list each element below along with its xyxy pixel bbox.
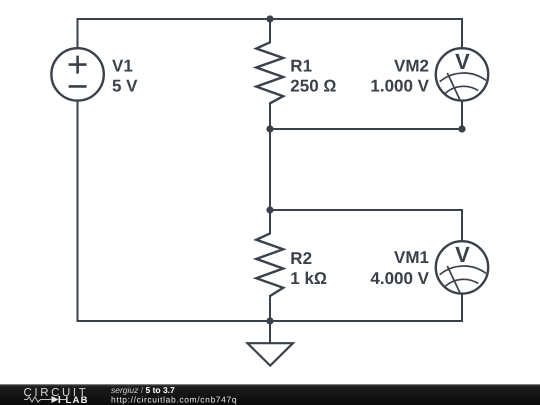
wire R1 bottom to R2 top (through nodes at y=129 and y=210) [269,103,271,233]
svg-text:1 kΩ: 1 kΩ [290,269,327,288]
label R2 value [290,249,327,288]
voltmeter VM2 [436,48,488,100]
svg-text:1.000 V: 1.000 V [370,76,429,95]
svg-text:V: V [455,49,470,74]
node junction dot (270,129) [266,125,273,132]
label VM2 value [370,56,429,95]
svg-text:V: V [455,242,470,267]
svg-text:R1: R1 [290,56,312,75]
wire V1 top lead [77,19,79,49]
svg-text:VM1: VM1 [394,248,429,267]
label V1 value [112,56,138,95]
wire R2 bottom lead to ground [269,296,271,343]
resistor R1 [256,42,283,103]
svg-text:VM2: VM2 [394,56,429,75]
svg-text:R2: R2 [290,249,312,268]
wire V1 bottom lead [77,101,79,321]
svg-text:250 Ω: 250 Ω [290,76,336,95]
node junction dot top (270,19) [266,15,273,22]
wire top horizontal (V1 top to VM2 top) [78,18,463,20]
node junction dot (270,210) [266,206,273,213]
svg-text:LAB: LAB [66,395,89,405]
wire horizontal node A (R1 bottom to VM2 bottom) [270,128,462,130]
label VM1 value [370,248,429,288]
wire horizontal node B (R2 top to VM1 top) [270,209,462,211]
label R1 value [290,56,336,95]
wire VM2 bottom lead [461,101,463,129]
ground [248,343,293,365]
svg-text:5 V: 5 V [112,76,138,95]
voltage source V1 [51,48,103,100]
node junction dot ground (270,321) [266,317,273,324]
CircuitLab logo resistor squiggle and diode [24,397,52,402]
svg-text:sergiuz / 5 to 3.7: sergiuz / 5 to 3.7 [111,385,175,395]
wire bottom horizontal (ground net) [78,320,463,322]
wire VM1 bottom lead [461,294,463,321]
resistor R2 [256,233,283,296]
svg-text:4.000 V: 4.000 V [370,269,429,288]
wire VM1 top lead [461,210,463,241]
wire VM2 top lead [461,19,463,49]
voltmeter VM1 [436,241,488,293]
node junction dot (462,129) [458,125,465,132]
svg-text:V1: V1 [112,56,133,75]
wire R1 top lead [269,19,271,43]
svg-text:http://circuitlab.com/cnb747q: http://circuitlab.com/cnb747q [111,395,237,405]
